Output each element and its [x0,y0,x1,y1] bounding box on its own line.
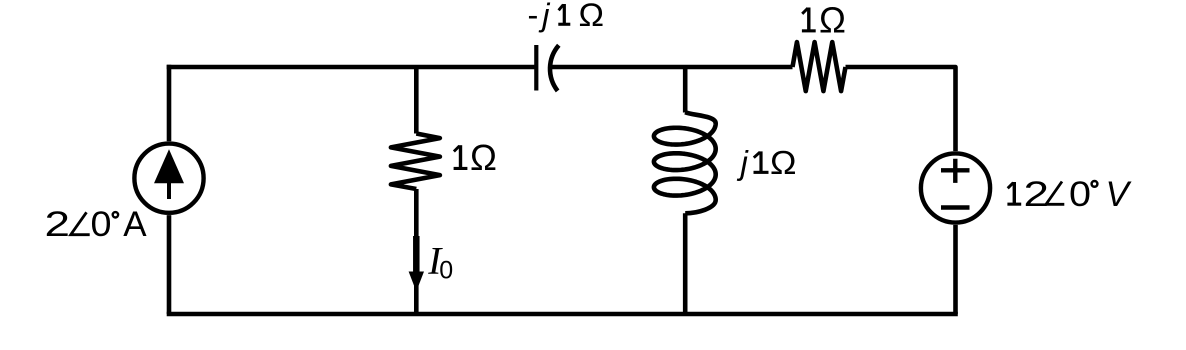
svg-text:-: - [528,0,539,33]
svg-text:Ω: Ω [770,144,797,181]
svg-text:Ω: Ω [470,137,497,178]
svg-text:A: A [123,205,147,244]
svg-text:0: 0 [91,205,112,244]
svg-text:0: 0 [1069,175,1091,214]
svg-text:2: 2 [45,205,71,244]
svg-text:Ω: Ω [819,0,846,40]
svg-text:0: 0 [439,256,453,284]
svg-text:V: V [1106,175,1133,214]
svg-text:Ω: Ω [579,0,605,33]
svg-text:2: 2 [1024,175,1050,214]
